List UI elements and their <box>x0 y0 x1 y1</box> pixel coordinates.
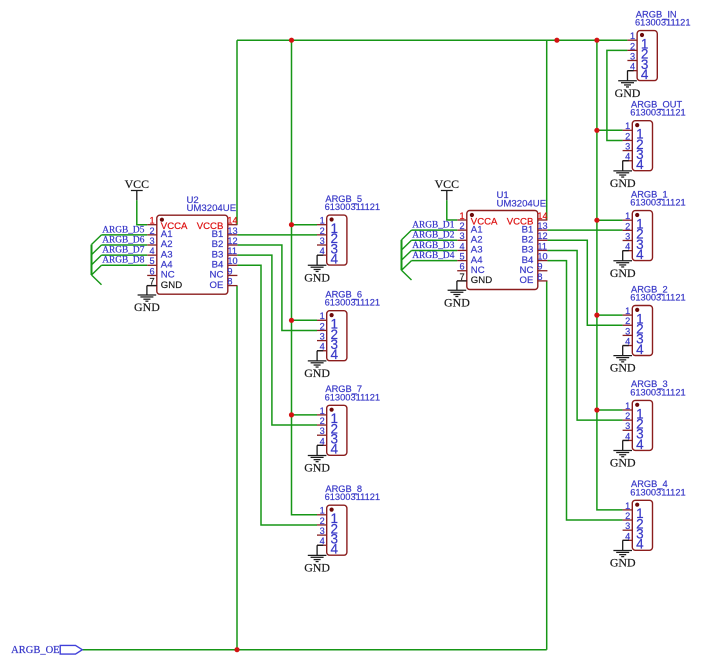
svg-text:4: 4 <box>331 542 339 557</box>
svg-text:14: 14 <box>537 211 547 221</box>
svg-text:UM3204UE: UM3204UE <box>187 203 237 214</box>
svg-text:4: 4 <box>331 251 339 266</box>
svg-text:1: 1 <box>625 501 630 511</box>
svg-text:10: 10 <box>537 252 547 262</box>
svg-text:ARGB_D6: ARGB_D6 <box>102 235 145 245</box>
svg-text:4: 4 <box>149 246 154 256</box>
svg-text:9: 9 <box>227 266 232 276</box>
svg-text:14: 14 <box>227 216 237 226</box>
svg-text:3: 3 <box>625 142 630 152</box>
svg-text:GND: GND <box>304 560 330 574</box>
svg-text:2: 2 <box>625 221 630 231</box>
svg-text:4: 4 <box>636 537 644 552</box>
svg-text:5: 5 <box>149 256 154 266</box>
svg-text:VCC: VCC <box>435 177 460 191</box>
svg-text:61300311121: 61300311121 <box>325 298 381 308</box>
svg-text:5: 5 <box>459 252 464 262</box>
svg-text:GND: GND <box>610 361 636 375</box>
svg-text:OE: OE <box>210 280 224 291</box>
svg-text:3: 3 <box>625 326 630 336</box>
svg-text:3: 3 <box>630 51 635 61</box>
svg-text:4: 4 <box>636 247 644 262</box>
svg-text:11: 11 <box>227 246 237 256</box>
svg-text:2: 2 <box>625 511 630 521</box>
svg-text:2: 2 <box>625 411 630 421</box>
svg-text:2: 2 <box>149 226 154 236</box>
svg-text:GND: GND <box>615 86 641 100</box>
svg-text:3: 3 <box>320 236 325 246</box>
svg-text:12: 12 <box>227 236 237 246</box>
svg-text:GND: GND <box>610 456 636 470</box>
svg-text:ARGB_D5: ARGB_D5 <box>102 225 145 235</box>
svg-text:61300311121: 61300311121 <box>635 18 691 28</box>
svg-text:ARGB_OE: ARGB_OE <box>11 645 59 656</box>
svg-text:2: 2 <box>625 316 630 326</box>
svg-text:4: 4 <box>331 347 339 362</box>
svg-text:61300311121: 61300311121 <box>325 492 381 502</box>
svg-text:GND: GND <box>610 266 636 280</box>
svg-text:4: 4 <box>331 442 339 457</box>
svg-text:9: 9 <box>537 262 542 272</box>
svg-text:61300311121: 61300311121 <box>630 198 686 208</box>
svg-text:3: 3 <box>459 231 464 241</box>
svg-text:3: 3 <box>320 426 325 436</box>
svg-text:61300311121: 61300311121 <box>630 293 686 303</box>
svg-text:GND: GND <box>304 460 330 474</box>
svg-text:1: 1 <box>320 216 325 226</box>
svg-text:GND: GND <box>304 366 330 380</box>
svg-text:2: 2 <box>625 131 630 141</box>
svg-text:10: 10 <box>227 256 237 266</box>
svg-text:ARGB_D2: ARGB_D2 <box>412 231 455 241</box>
svg-text:1: 1 <box>630 31 635 41</box>
svg-text:1: 1 <box>625 401 630 411</box>
svg-text:6: 6 <box>149 266 154 276</box>
svg-text:GND: GND <box>134 300 160 314</box>
svg-text:1: 1 <box>625 211 630 221</box>
svg-text:1: 1 <box>320 406 325 416</box>
svg-text:3: 3 <box>625 231 630 241</box>
svg-text:3: 3 <box>320 526 325 536</box>
svg-text:GND: GND <box>471 275 492 286</box>
svg-text:4: 4 <box>636 157 644 172</box>
svg-text:1: 1 <box>320 506 325 516</box>
svg-text:3: 3 <box>625 421 630 431</box>
svg-text:ARGB_D1: ARGB_D1 <box>412 221 455 231</box>
svg-text:ARGB_D3: ARGB_D3 <box>412 241 455 251</box>
svg-text:GND: GND <box>610 176 636 190</box>
svg-text:4: 4 <box>459 241 464 251</box>
svg-text:61300311121: 61300311121 <box>630 108 686 118</box>
svg-text:2: 2 <box>320 416 325 426</box>
svg-text:2: 2 <box>320 226 325 236</box>
svg-text:4: 4 <box>636 342 644 357</box>
svg-text:GND: GND <box>304 270 330 284</box>
svg-text:61300311121: 61300311121 <box>325 392 381 402</box>
svg-text:ARGB_D4: ARGB_D4 <box>412 251 455 261</box>
svg-text:GND: GND <box>161 280 182 291</box>
svg-text:11: 11 <box>537 241 547 251</box>
svg-text:13: 13 <box>227 226 237 236</box>
svg-text:3: 3 <box>320 332 325 342</box>
svg-text:1: 1 <box>459 211 464 221</box>
svg-text:4: 4 <box>636 437 644 452</box>
svg-text:1: 1 <box>320 311 325 321</box>
svg-text:12: 12 <box>537 231 547 241</box>
svg-text:1: 1 <box>149 216 154 226</box>
svg-text:ARGB_D7: ARGB_D7 <box>102 246 145 256</box>
svg-text:2: 2 <box>320 321 325 331</box>
svg-text:2: 2 <box>459 221 464 231</box>
svg-text:ARGB_D8: ARGB_D8 <box>102 256 145 266</box>
svg-text:2: 2 <box>320 516 325 526</box>
svg-text:4: 4 <box>641 67 649 82</box>
svg-text:GND: GND <box>444 295 470 309</box>
svg-text:1: 1 <box>625 121 630 131</box>
svg-text:3: 3 <box>625 521 630 531</box>
svg-text:3: 3 <box>149 236 154 246</box>
svg-text:GND: GND <box>610 555 636 569</box>
svg-text:UM3204UE: UM3204UE <box>497 198 547 209</box>
svg-text:61300311121: 61300311121 <box>630 387 686 397</box>
svg-text:8: 8 <box>537 272 542 282</box>
svg-text:VCC: VCC <box>125 177 150 191</box>
svg-text:13: 13 <box>537 221 547 231</box>
svg-text:61300311121: 61300311121 <box>630 487 686 497</box>
svg-text:6: 6 <box>459 262 464 272</box>
svg-text:61300311121: 61300311121 <box>325 202 381 212</box>
svg-text:2: 2 <box>630 41 635 51</box>
svg-text:8: 8 <box>227 277 232 287</box>
svg-text:OE: OE <box>520 275 534 286</box>
svg-text:1: 1 <box>625 306 630 316</box>
